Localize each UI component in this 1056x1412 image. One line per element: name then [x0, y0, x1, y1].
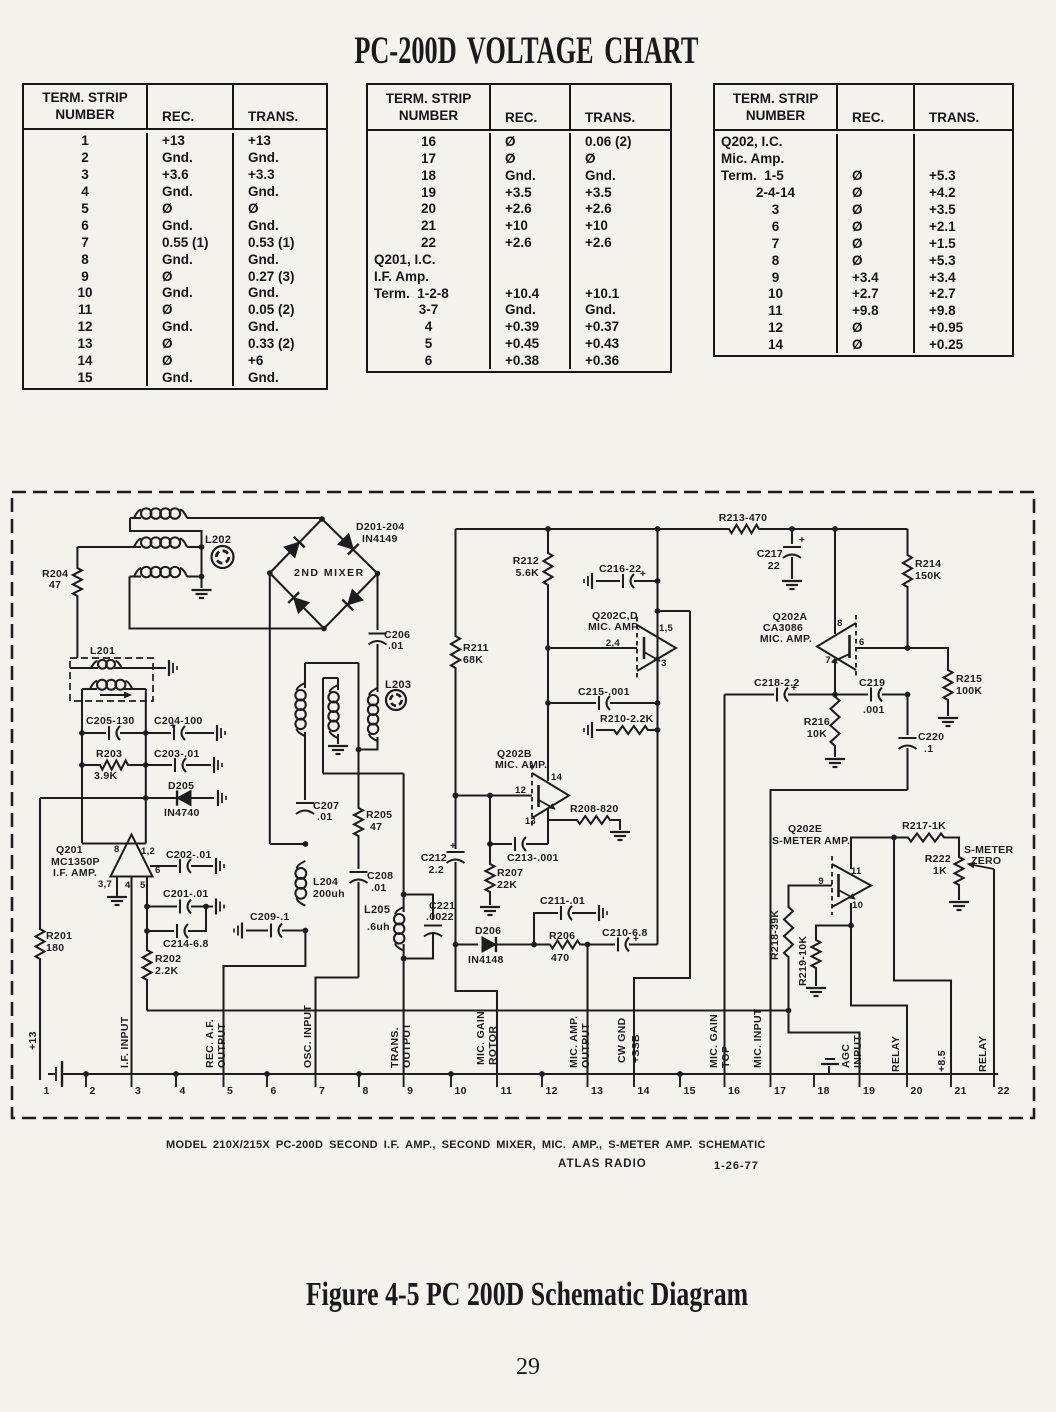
resistor R215	[908, 648, 983, 716]
capacitor C216	[584, 563, 660, 589]
terminal ticks and numbers	[44, 1071, 1010, 1097]
label CW GND +SSB	[616, 1017, 642, 1063]
svg-text:4: 4	[180, 1085, 186, 1097]
label MIC. GAIN ROTOR	[475, 1011, 499, 1065]
label I.F. INPUT	[119, 1016, 131, 1068]
svg-text:C213-.001: C213-.001	[507, 852, 559, 864]
svg-text:OUTPUT: OUTPUT	[580, 1023, 592, 1068]
svg-text:C212: C212	[421, 852, 447, 864]
resistor R219	[797, 936, 821, 986]
svg-text:1K: 1K	[933, 865, 947, 877]
wire	[316, 978, 359, 1075]
capacitor C217	[757, 526, 805, 579]
svg-text:INPUT: INPUT	[852, 1035, 864, 1068]
wire emitter 13	[547, 808, 549, 844]
capacitor C203	[143, 748, 222, 773]
svg-text:C205-130: C205-130	[86, 715, 135, 727]
svg-text:+13: +13	[27, 1031, 39, 1050]
wire	[82, 842, 146, 844]
svg-text:180: 180	[46, 942, 64, 954]
svg-text:R214: R214	[915, 558, 941, 570]
label AGC INPUT	[840, 1035, 864, 1068]
node	[303, 928, 309, 934]
capacitor C202	[150, 849, 224, 874]
label 2ND MIXER	[294, 567, 365, 579]
resistor R207	[486, 796, 524, 906]
svg-text:11: 11	[501, 1085, 513, 1097]
label OSC. INPUT	[302, 1005, 314, 1068]
svg-text:R207: R207	[497, 867, 523, 879]
svg-text:14: 14	[638, 1085, 650, 1097]
wire to terminal 19	[789, 1011, 860, 1075]
diode D204	[288, 592, 309, 613]
coil L202 label and slug symbol	[205, 534, 234, 568]
svg-text:ZERO: ZERO	[971, 855, 1001, 867]
coil L203	[359, 679, 412, 750]
node mixer top	[319, 516, 325, 522]
svg-text:5: 5	[227, 1085, 233, 1097]
svg-text:MIC. GAIN: MIC. GAIN	[708, 1014, 720, 1068]
wire pin 9	[789, 886, 833, 906]
wire collector 14	[547, 703, 549, 781]
svg-text:R208-820: R208-820	[570, 803, 619, 815]
capacitor C218	[725, 677, 838, 702]
transformer T201 winding 2 (middle)	[77, 537, 204, 550]
coil L204	[295, 861, 344, 906]
svg-text:TOP: TOP	[720, 1046, 732, 1068]
diode D206	[453, 925, 534, 966]
resistor R211	[451, 529, 489, 796]
resistor R203	[79, 748, 146, 782]
svg-text:3,7: 3,7	[98, 879, 112, 890]
svg-text:C217: C217	[757, 548, 783, 560]
svg-text:L204: L204	[313, 876, 338, 888]
label D201-204 IN4149	[356, 521, 405, 545]
svg-text:OUTPUT: OUTPUT	[216, 1023, 228, 1068]
capacitor C209	[234, 911, 305, 939]
svg-text:C201-.01: C201-.01	[163, 888, 209, 900]
svg-text:R203: R203	[96, 748, 122, 760]
label +8.5	[936, 1050, 948, 1072]
wire to terminal 13	[586, 945, 588, 1075]
svg-text:R202: R202	[155, 953, 181, 965]
svg-text:5: 5	[140, 880, 146, 891]
svg-text:22: 22	[998, 1085, 1010, 1097]
wire collector 1,5	[655, 526, 661, 637]
svg-text:13: 13	[591, 1085, 603, 1097]
transistor Q202B	[495, 748, 569, 827]
svg-text:R218-39K: R218-39K	[769, 910, 781, 960]
svg-text:22: 22	[768, 560, 780, 572]
svg-text:14: 14	[551, 772, 563, 783]
wire	[403, 774, 405, 895]
svg-text:+8.5: +8.5	[936, 1050, 948, 1072]
capacitor C206	[369, 574, 411, 693]
svg-text:R210-2.2K: R210-2.2K	[600, 713, 654, 725]
capacitor C201	[144, 888, 224, 915]
svg-text:R219-10K: R219-10K	[797, 936, 809, 986]
capacitor C211	[534, 895, 607, 945]
svg-text:19: 19	[863, 1085, 875, 1097]
resistor R206	[531, 930, 587, 964]
svg-text:AGC: AGC	[840, 1044, 852, 1068]
capacitor C219	[835, 677, 910, 716]
ground	[938, 718, 958, 726]
svg-text:MIC. INPUT: MIC. INPUT	[752, 1008, 764, 1068]
svg-text:12: 12	[515, 785, 526, 796]
svg-text:C203-.01: C203-.01	[154, 748, 200, 760]
wire	[270, 519, 378, 629]
svg-text:Q201: Q201	[56, 844, 83, 856]
svg-text:7: 7	[825, 655, 831, 666]
ground	[825, 759, 845, 767]
svg-text:R217-1K: R217-1K	[902, 820, 946, 832]
svg-text:5.6K: 5.6K	[516, 567, 539, 579]
transistor Q202A	[760, 611, 865, 678]
label RELAY	[890, 1036, 902, 1072]
svg-text:OSC. INPUT: OSC. INPUT	[302, 1005, 314, 1068]
svg-text:13: 13	[525, 816, 536, 827]
svg-text:REC. A.F.: REC. A.F.	[204, 1019, 216, 1068]
svg-text:10K: 10K	[807, 728, 827, 740]
svg-text:IN4148: IN4148	[468, 954, 504, 966]
svg-text:.001: .001	[863, 704, 885, 716]
wire	[356, 663, 362, 806]
svg-text:7: 7	[319, 1085, 325, 1097]
node	[655, 608, 690, 614]
node mixer right	[375, 571, 381, 577]
svg-text:12: 12	[546, 1085, 558, 1097]
svg-text:47: 47	[49, 579, 61, 591]
resistor R214	[903, 529, 941, 648]
svg-text:.01: .01	[388, 640, 404, 652]
svg-text:RELAY: RELAY	[890, 1036, 902, 1072]
resistor R210	[584, 713, 660, 738]
svg-text:R211: R211	[463, 642, 489, 654]
capacitor C215	[545, 686, 660, 710]
svg-text:470: 470	[551, 952, 569, 964]
svg-text:CW GND: CW GND	[616, 1017, 628, 1063]
svg-text:16: 16	[728, 1085, 740, 1097]
svg-text:D205: D205	[168, 780, 194, 792]
wire	[224, 931, 306, 1075]
svg-text:2.2: 2.2	[429, 864, 445, 876]
wire pin 8	[832, 526, 838, 634]
svg-text:C209-.1: C209-.1	[250, 911, 289, 923]
ground	[480, 907, 500, 915]
svg-text:3: 3	[135, 1085, 141, 1097]
wire	[322, 678, 324, 774]
svg-text:.01: .01	[317, 811, 333, 823]
transformer T201 winding 1 (top)	[130, 508, 321, 518]
svg-text:2: 2	[90, 1085, 96, 1097]
svg-text:L205: L205	[364, 904, 390, 916]
svg-text:+: +	[799, 535, 805, 546]
svg-text:.01: .01	[371, 882, 387, 894]
wire base 2,4	[545, 645, 637, 651]
svg-text:R201: R201	[46, 930, 72, 942]
svg-text:C215-.001: C215-.001	[578, 686, 630, 698]
wire pin 6	[856, 645, 910, 651]
svg-text:.6uh: .6uh	[367, 921, 390, 933]
capacitor C213	[487, 837, 559, 864]
label MIC. INPUT	[752, 1008, 764, 1068]
svg-text:I.F. AMP.: I.F. AMP.	[53, 867, 97, 879]
capacitor C205	[79, 715, 146, 740]
svg-text:MIC. GAIN: MIC. GAIN	[475, 1011, 487, 1065]
wire to terminal 21	[894, 838, 951, 1075]
capacitor C212	[421, 793, 465, 945]
svg-text:R206: R206	[549, 930, 575, 942]
wire to terminal 20	[851, 926, 907, 1075]
label TRANS. OUTPUT	[389, 1023, 413, 1068]
svg-text:1,2: 1,2	[141, 846, 155, 857]
wire wiper to terminal 22	[993, 869, 995, 1074]
wire	[634, 611, 690, 1074]
svg-text:10: 10	[852, 900, 863, 911]
svg-text:200uh: 200uh	[313, 888, 345, 900]
svg-text:10: 10	[455, 1085, 467, 1097]
svg-text:C214-6.8: C214-6.8	[163, 938, 209, 950]
node	[303, 841, 309, 847]
svg-text:R215: R215	[956, 673, 982, 685]
diode D205	[143, 780, 226, 819]
svg-text:150K: 150K	[915, 570, 941, 582]
resistor R202	[143, 877, 182, 1011]
resistor R213	[719, 512, 768, 533]
svg-text:11: 11	[851, 866, 862, 877]
wire	[656, 637, 658, 945]
label REC. A.F. OUTPUT	[204, 1019, 228, 1068]
node mixer left	[267, 570, 273, 576]
transformer T202 inner winding	[323, 678, 348, 754]
wire	[403, 959, 405, 1075]
chassis ground	[48, 1061, 62, 1087]
svg-text:IN4149: IN4149	[362, 533, 398, 545]
ground	[949, 902, 969, 910]
capacitor C220	[899, 695, 945, 791]
svg-text:8: 8	[114, 844, 120, 855]
label MIC. AMP. OUTPUT	[568, 1016, 592, 1068]
wire	[40, 797, 146, 799]
transformer T201 winding 3 (bottom)	[130, 567, 205, 580]
transformer T202 outer winding	[295, 663, 358, 800]
capacitor C210	[585, 927, 658, 952]
svg-text:C218-2.2: C218-2.2	[754, 677, 800, 689]
svg-text:68K: 68K	[463, 654, 483, 666]
svg-text:8: 8	[363, 1085, 369, 1097]
svg-text:1,5: 1,5	[659, 623, 674, 634]
svg-text:RELAY: RELAY	[977, 1036, 989, 1072]
wire pin 10	[816, 903, 854, 938]
svg-text:C216-22: C216-22	[599, 563, 641, 575]
wire	[145, 689, 147, 844]
capacitor C214	[144, 907, 209, 951]
svg-text:+SSB: +SSB	[630, 1034, 642, 1063]
diode D201	[284, 537, 305, 558]
svg-text:3: 3	[661, 658, 667, 669]
wire AGC line	[147, 1008, 791, 1014]
capacitor C204	[143, 715, 225, 741]
wire	[130, 518, 202, 588]
svg-text:OUTPUT: OUTPUT	[401, 1023, 413, 1068]
label +13	[27, 1031, 39, 1050]
diode D202	[338, 534, 359, 555]
resistor R212	[513, 526, 553, 781]
svg-text:.0022: .0022	[426, 911, 454, 923]
svg-text:8: 8	[837, 618, 843, 629]
svg-text:1: 1	[44, 1085, 50, 1097]
wire	[130, 577, 325, 629]
wire terminal bus	[62, 1073, 998, 1075]
svg-text:18: 18	[818, 1085, 830, 1097]
svg-text:C204-100: C204-100	[154, 715, 203, 727]
svg-text:21: 21	[955, 1085, 967, 1097]
svg-text:3.9K: 3.9K	[94, 770, 117, 782]
wire	[323, 772, 404, 774]
wire	[456, 945, 498, 1075]
svg-text:9: 9	[407, 1085, 413, 1097]
wire pin 4 to terminal 3	[130, 877, 132, 1075]
feedthrough capacitor	[169, 660, 177, 676]
svg-text:100K: 100K	[956, 685, 982, 697]
svg-text:MIC. AMP.: MIC. AMP.	[495, 759, 547, 771]
svg-text:C211-.01: C211-.01	[540, 895, 585, 907]
svg-text:I.F. INPUT: I.F. INPUT	[119, 1016, 131, 1068]
svg-text:6: 6	[859, 637, 865, 648]
ground	[192, 590, 212, 598]
svg-text:R205: R205	[366, 809, 392, 821]
svg-text:15: 15	[684, 1085, 696, 1097]
svg-text:C210-6.8: C210-6.8	[602, 927, 648, 939]
wire	[270, 573, 306, 844]
svg-text:S-METER AMP.: S-METER AMP.	[772, 835, 850, 847]
ground	[806, 988, 826, 996]
wire emitter 3	[656, 659, 658, 703]
svg-text:D206: D206	[475, 925, 501, 937]
svg-text:L202: L202	[205, 534, 231, 546]
capacitor C221	[401, 895, 456, 962]
wire pin 7	[834, 659, 836, 695]
svg-text:R222: R222	[925, 853, 951, 865]
svg-text:D201-204: D201-204	[356, 521, 405, 533]
svg-text:C219: C219	[859, 677, 885, 689]
svg-text:MIC. AMP.: MIC. AMP.	[588, 621, 640, 633]
resistor R201	[36, 798, 73, 1080]
coil L201	[70, 645, 166, 701]
chassis ground	[821, 1059, 839, 1074]
node mixer bottom	[321, 626, 327, 632]
svg-text:R213-470: R213-470	[719, 512, 768, 524]
svg-text:C220: C220	[918, 731, 944, 743]
svg-text:4: 4	[125, 880, 131, 891]
wire to terminal 16	[723, 695, 725, 1075]
capacitor C207	[296, 800, 339, 823]
transistor Q202E	[772, 823, 871, 915]
diode D203	[342, 589, 363, 610]
svg-text:.1: .1	[924, 743, 933, 755]
svg-text:C202-.01: C202-.01	[166, 849, 212, 861]
wire	[81, 689, 83, 844]
ground	[782, 581, 802, 589]
resistor R208	[548, 803, 620, 830]
wire base 12	[453, 793, 532, 799]
svg-text:MIC. AMP.: MIC. AMP.	[568, 1016, 580, 1068]
ground	[610, 832, 630, 840]
svg-text:C208: C208	[367, 870, 393, 882]
resistor R216	[804, 695, 840, 758]
wire pin 11	[851, 835, 897, 869]
resistor R218	[769, 905, 793, 1011]
svg-text:IN4740: IN4740	[164, 807, 200, 819]
svg-text:17: 17	[774, 1085, 786, 1097]
svg-text:R216: R216	[804, 716, 830, 728]
svg-text:L201: L201	[90, 645, 115, 657]
svg-text:R212: R212	[513, 555, 539, 567]
transistor Q202C,D	[588, 610, 676, 679]
svg-text:+: +	[450, 841, 456, 852]
coil L205	[364, 892, 407, 959]
svg-text:Q202E: Q202E	[788, 823, 822, 835]
svg-text:TRANS.: TRANS.	[389, 1027, 401, 1068]
resistor R217	[894, 820, 959, 855]
svg-text:22K: 22K	[497, 879, 517, 891]
wire V+ rail	[456, 528, 908, 530]
wire	[771, 790, 908, 1074]
svg-text:20: 20	[911, 1085, 923, 1097]
ground	[107, 877, 127, 906]
resistor R204	[42, 547, 82, 658]
svg-text:47: 47	[370, 821, 382, 833]
resistor R205	[354, 806, 392, 838]
svg-text:2ND MIXER: 2ND MIXER	[294, 567, 365, 579]
op-amp U Q201 MC1350P	[51, 835, 161, 892]
capacitor C208	[350, 838, 394, 978]
svg-text:ROTOR: ROTOR	[487, 1026, 499, 1065]
svg-text:2.2K: 2.2K	[155, 965, 178, 977]
potentiometer R222	[925, 844, 1014, 900]
svg-text:6: 6	[271, 1085, 277, 1097]
label RELAY	[977, 1036, 989, 1072]
svg-text:MIC. AMP.: MIC. AMP.	[760, 633, 812, 645]
label MIC. GAIN TOP	[708, 1014, 732, 1068]
